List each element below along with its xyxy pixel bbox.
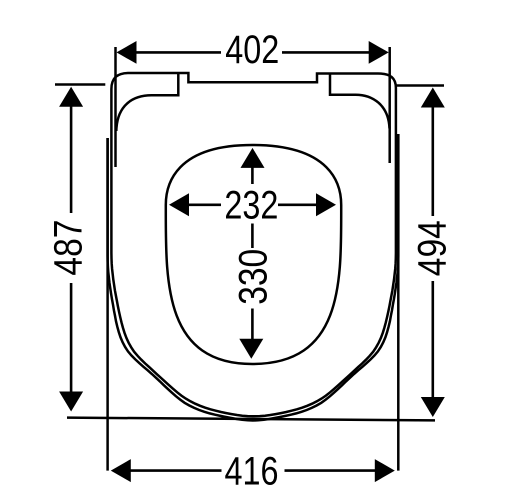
arrow 232 left (169, 193, 189, 216)
inner opening oval (166, 145, 341, 364)
arrow 330 bottom (239, 339, 263, 359)
dimension 494 line (431, 98, 434, 216)
arrow 494 bottom (421, 397, 445, 417)
extension line 494 top (396, 84, 445, 87)
svg-text:487: 487 (46, 220, 90, 276)
seat ring (outer silhouette) (108, 134, 399, 421)
extension line bottom shared (67, 418, 435, 421)
extension line 402 left (114, 47, 117, 167)
arrow 487 bottom (59, 392, 83, 412)
dimension 416 line (130, 469, 222, 472)
dimension 330 line (251, 167, 254, 184)
svg-text:402: 402 (225, 28, 279, 72)
dimension 487 line (70, 99, 73, 213)
arrow 402 right (369, 41, 389, 64)
arrow 487 top (59, 87, 83, 107)
arrow 402 left (117, 41, 137, 64)
lid inner contour right (330, 74, 390, 129)
arrow 232 right (316, 193, 336, 216)
svg-text:330: 330 (231, 249, 275, 305)
extension line 487 top (55, 83, 105, 86)
lid inner contour left (116, 74, 178, 132)
dimension 232 line (189, 204, 221, 207)
extension line 402 right (388, 47, 391, 163)
lid silhouette with top recessed strip (111, 73, 396, 416)
arrow 416 left (111, 459, 131, 482)
extension line 416 right (397, 134, 400, 471)
svg-text:494: 494 (411, 220, 455, 276)
svg-text:232: 232 (224, 184, 278, 228)
arrow 416 right (375, 459, 395, 482)
extension line 416 left (106, 138, 109, 471)
arrow 494 top (421, 88, 445, 108)
dimension 402 line (135, 51, 221, 54)
arrow 330 top (241, 148, 265, 168)
svg-text:416: 416 (225, 450, 279, 494)
